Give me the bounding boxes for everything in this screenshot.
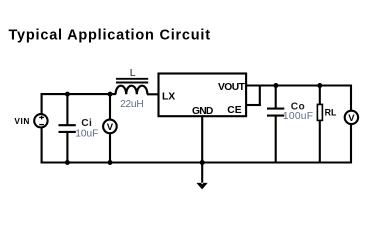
source VIN minus sign [39,124,44,126]
svg-text:L: L [130,67,136,79]
node: junction dot V1 on bottom rail [108,160,113,165]
svg-text:Typical Application Circuit: Typical Application Circuit [9,28,211,44]
wire: top rail from VIN to inductor [41,93,116,95]
wire: voltmeter V2 bottom lead [350,124,352,164]
svg-text:VIN: VIN [14,116,29,126]
wire: right rail down to voltmeter V2 [350,85,352,112]
capacitor Ci plates [59,125,76,132]
node: junction dot Ci on top rail [65,92,70,97]
resistor RL bottom lead [319,120,321,162]
op-amp U1 regulator IC box [159,74,247,117]
wire: CE pin stub [246,104,261,106]
wire: GND pin drop from IC to ground [201,116,203,184]
node: junction dot GND on bottom rail [200,160,205,165]
svg-text:GND: GND [192,106,213,117]
node: junction dot Co on VOUT rail [273,83,278,88]
svg-text:CE: CE [227,105,241,116]
capacitor Ci bottom lead [66,132,68,163]
svg-text:Ci: Ci [81,118,92,129]
voltmeter V1 bottom lead [109,133,111,163]
svg-text:V: V [107,122,114,133]
wire: bottom ground rail [41,161,352,163]
capacitor Co plates [267,109,284,116]
node: junction dot voltmeter V1 on top rail [108,92,113,97]
capacitor Co bottom lead [275,116,277,163]
source VIN circle [34,114,47,127]
node: junction dot RL on VOUT rail [317,83,322,88]
svg-text:V: V [348,113,355,124]
node: junction dot Ci on bottom rail [65,160,70,165]
svg-text:100uF: 100uF [283,111,313,122]
wire: CE to VOUT vertical tie [259,85,261,107]
voltmeter V2 circle [345,111,358,124]
wire: inductor output to IC LX pin [147,93,160,95]
svg-text:RL: RL [325,108,337,118]
ground symbol arrowhead [196,183,207,190]
svg-text:VOUT: VOUT [218,82,246,93]
svg-text:LX: LX [162,91,175,102]
wire: VOUT output rail [246,84,352,86]
source VIN plus sign [39,116,44,120]
voltmeter V1 top lead [109,94,111,120]
ground symbol arrowhead notch [201,183,204,185]
resistor RL top lead [319,86,321,105]
resistor RL body [317,104,322,120]
svg-text:10uF: 10uF [75,129,98,140]
wire: VIN source bottom lead [41,128,43,164]
svg-text:22uH: 22uH [120,99,143,110]
capacitor Co top lead [275,86,277,109]
wire: VIN source top lead [41,93,43,114]
inductor L core bars [116,79,148,83]
inductor L winding arcs [116,86,148,95]
voltmeter V1 circle [103,120,117,134]
capacitor Ci top lead [66,94,68,125]
